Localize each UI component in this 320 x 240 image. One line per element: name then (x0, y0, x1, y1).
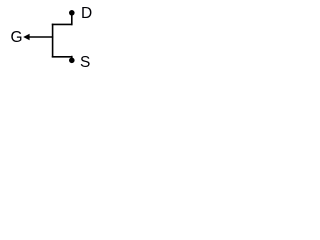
wire: source lead horizontal segment (52, 56, 73, 58)
transistor Q1: P-channel JFET symbol (0, 0, 106, 78)
wire: source lead vertical segment (71, 56, 73, 61)
gate arrowhead (points left, away from channel) (23, 34, 29, 40)
svg-text:G: G (11, 29, 23, 46)
node S: source terminal dot (69, 58, 75, 64)
wire: drain lead horizontal segment (52, 23, 73, 25)
node D: drain terminal dot (69, 10, 75, 16)
channel bar of Q1 (52, 24, 54, 58)
wire: gate lead from arrow to channel (29, 36, 54, 38)
wire: drain lead vertical segment (71, 13, 73, 25)
svg-text:S: S (80, 54, 90, 71)
svg-text:D: D (81, 5, 92, 22)
